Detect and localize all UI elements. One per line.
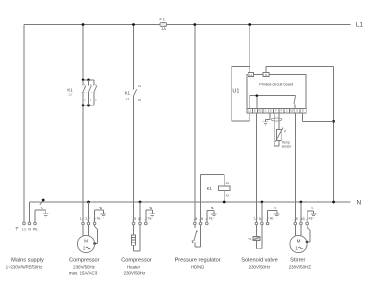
svg-text:230V/50HZ: 230V/50HZ — [289, 264, 312, 269]
svg-text:Y1: Y1 — [248, 237, 252, 241]
svg-text:Compressor: Compressor — [69, 257, 100, 263]
wire heater PE bracket — [146, 208, 153, 222]
wire stirrer PE bracket — [307, 208, 313, 222]
svg-text:ϑ: ϑ — [284, 130, 286, 134]
ground stirrer PE — [311, 214, 317, 217]
wire board internal bus — [250, 96, 296, 109]
svg-text:N: N — [265, 73, 267, 77]
svg-text:230V/50Hz: 230V/50Hz — [124, 271, 146, 276]
ground solenoid PE — [274, 214, 280, 217]
mains terminal labels — [15, 228, 38, 232]
caption compressor heater — [121, 257, 152, 275]
svg-text:M: M — [84, 239, 88, 244]
cable marker temp sensor — [271, 118, 282, 121]
svg-text:4: 4 — [90, 99, 92, 101]
fuse F1 — [159, 17, 166, 31]
svg-text:C: C — [265, 110, 267, 113]
svg-text:PE: PE — [148, 216, 152, 220]
wire board L1 drop — [249, 25, 251, 73]
wire solenoid N — [261, 202, 263, 222]
svg-text:sensor: sensor — [282, 145, 293, 149]
svg-text:Pressure regulator: Pressure regulator — [175, 257, 221, 263]
caption stirrer — [289, 257, 312, 269]
node N tap symbol — [40, 199, 45, 205]
svg-text:1~230V/N/PE/50Hz: 1~230V/N/PE/50Hz — [6, 265, 42, 270]
svg-text:1A: 1A — [161, 27, 166, 31]
wire compressor PE bracket — [95, 208, 104, 222]
wire heater L to terminal — [133, 96, 135, 222]
svg-text:N: N — [302, 110, 304, 113]
svg-text:1: 1 — [80, 217, 82, 221]
svg-text:L1: L1 — [356, 22, 364, 29]
caption compressor — [69, 257, 100, 275]
caption solenoid valve — [241, 257, 277, 269]
wire board L1 loop — [232, 66, 250, 121]
svg-text:A1: A1 — [226, 181, 230, 185]
svg-text:1: 1 — [295, 246, 298, 251]
wire solenoid PE bracket — [268, 207, 277, 222]
svg-text:1 2: 1 2 — [68, 94, 72, 97]
node junction rail/pressure — [193, 23, 196, 26]
svg-text:NC: NC — [258, 110, 262, 113]
node N junction compressor — [87, 201, 90, 204]
wire compressor L drop — [82, 25, 84, 80]
contactor K1 main contacts — [67, 79, 97, 107]
svg-text:F 1: F 1 — [159, 17, 165, 21]
wire stirrer N — [300, 202, 302, 222]
svg-text:4: 4 — [138, 217, 140, 221]
svg-text:HD/ND: HD/ND — [191, 264, 204, 269]
wire N rail — [30, 201, 351, 203]
motor M2 stirrer — [290, 235, 307, 252]
svg-text:N: N — [28, 228, 31, 232]
terminal X0:N — [28, 222, 31, 225]
connector X1 compressor — [80, 216, 101, 224]
node N junction solenoid — [261, 201, 264, 204]
wire heater N — [139, 202, 141, 222]
svg-text:230V/50Hz: 230V/50Hz — [73, 264, 95, 269]
svg-text:1: 1 — [83, 246, 86, 251]
connector X5 stirrer — [294, 216, 313, 224]
op-amp U1 printed-circuit board — [232, 73, 306, 109]
node board internal junction — [256, 94, 259, 97]
svg-text:L1: L1 — [22, 228, 26, 232]
ground compressor PE — [101, 214, 107, 217]
relay coil K1 — [207, 181, 230, 197]
svg-text:6: 6 — [201, 217, 203, 221]
wire mains N drop — [29, 202, 31, 222]
node stirrer case bond — [306, 241, 309, 244]
svg-text:M: M — [297, 239, 301, 244]
ground heater PE — [150, 214, 156, 217]
node junction N rail right — [332, 201, 335, 204]
wire stirrer L drop — [294, 113, 296, 222]
wire mains PE — [35, 210, 46, 222]
wire L1 top rail — [24, 24, 351, 26]
svg-text:6: 6 — [95, 99, 97, 101]
wire K1 coil to N — [223, 191, 225, 202]
switch B1 pressure switch — [192, 225, 201, 247]
svg-text:10: 10 — [301, 217, 305, 221]
svg-text:Mains supply: Mains supply — [11, 258, 44, 264]
svg-text:PE: PE — [209, 216, 213, 220]
caption pressure regulator — [175, 257, 221, 269]
svg-text:9: 9 — [296, 217, 298, 221]
svg-text:Compressor: Compressor — [121, 257, 152, 263]
motor M1 compressor — [77, 235, 94, 252]
connector X2 heater — [132, 216, 152, 224]
svg-text:Stirrer: Stirrer — [290, 257, 305, 263]
svg-text:PE: PE — [270, 216, 274, 220]
node N junction heater — [139, 201, 142, 204]
svg-text:U1: U1 — [232, 89, 239, 95]
node junction rail/compressor — [82, 23, 85, 26]
switch board relay contact — [294, 96, 296, 109]
wire pressure PE bracket — [207, 208, 214, 222]
svg-text:PE: PE — [309, 216, 313, 220]
board bottom terminal row — [247, 109, 306, 113]
ground pressure PE — [211, 214, 217, 217]
wire board N top link — [266, 66, 334, 202]
wire pressure regulator L drop — [194, 25, 196, 222]
wire heater loop return — [134, 225, 141, 251]
node N junction stirrer — [300, 201, 303, 204]
wire pressure switch return — [200, 174, 202, 222]
svg-text:Solenoid valve: Solenoid valve — [241, 257, 277, 263]
wire K1 coil feed — [201, 174, 225, 186]
node junction rail/heater — [132, 23, 135, 26]
resistor E1 heater element — [131, 225, 135, 245]
svg-text:21: 21 — [138, 84, 141, 88]
wire compressor N — [88, 202, 90, 222]
wire mains L1 drop — [23, 25, 25, 222]
wire stirrer motor leads — [295, 225, 310, 242]
wire compressor motor leads — [83, 225, 97, 243]
wire board PE to chassis — [265, 113, 269, 122]
connector X3 pressure regulator — [194, 216, 213, 224]
svg-text:3: 3 — [134, 217, 136, 221]
svg-text:7: 7 — [253, 217, 255, 221]
svg-text:K1: K1 — [125, 90, 131, 95]
contactor K1 aux contact — [125, 84, 142, 102]
svg-text:230V/50Hz: 230V/50Hz — [249, 264, 271, 269]
svg-text:max. 15A/AC3: max. 15A/AC3 — [69, 271, 98, 276]
svg-text:C: C — [286, 110, 288, 113]
svg-text:K1: K1 — [207, 186, 213, 191]
svg-text:8: 8 — [259, 217, 261, 221]
svg-text:PE: PE — [33, 228, 38, 232]
svg-text:PE: PE — [97, 216, 101, 220]
svg-text:22: 22 — [138, 98, 141, 102]
svg-text:Printed-circuit board: Printed-circuit board — [259, 83, 293, 87]
node compressor case bond — [93, 242, 96, 245]
wire compressor L to terminal — [82, 106, 84, 222]
node junction rail/board — [248, 23, 251, 26]
ground mains PE — [40, 208, 48, 217]
svg-text:K1: K1 — [67, 88, 73, 93]
wire temp sensor leads — [274, 113, 279, 146]
svg-text:5: 5 — [195, 217, 197, 221]
svg-text:NO: NO — [290, 110, 294, 113]
wire heater L drop — [133, 25, 135, 90]
svg-text:2: 2 — [84, 99, 86, 101]
thermistor R2 temp sensor — [275, 128, 292, 149]
svg-text:A2: A2 — [226, 194, 230, 198]
wire solenoid L drop — [255, 113, 257, 222]
svg-text:N: N — [357, 199, 362, 206]
svg-text:Heater: Heater — [127, 264, 141, 269]
terminal X0:L1 — [23, 222, 26, 225]
node N junction K1 coil — [223, 201, 226, 204]
wire board N bottom link — [303, 113, 334, 122]
connector X4 solenoid valve — [253, 216, 273, 224]
terminal X0:PE — [34, 222, 37, 225]
solenoid valve Y1 — [248, 225, 262, 249]
svg-text:2: 2 — [86, 217, 88, 221]
node junction N return — [332, 120, 335, 123]
caption mains supply — [6, 258, 44, 270]
ground board PE — [263, 122, 269, 125]
svg-text:1 4: 1 4 — [126, 98, 130, 101]
